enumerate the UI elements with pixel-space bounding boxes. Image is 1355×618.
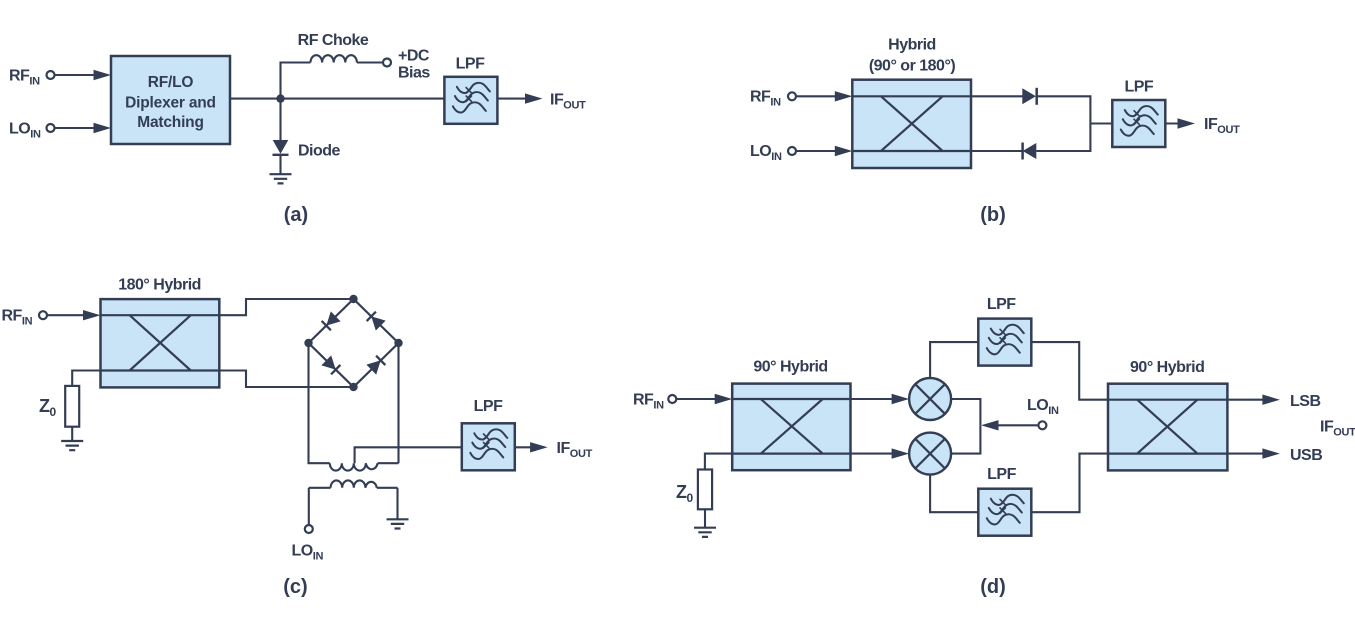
svg-text:+DC: +DC <box>398 48 430 65</box>
svg-text:RF Choke: RF Choke <box>298 32 369 49</box>
svg-text:(a): (a) <box>284 204 308 226</box>
svg-text:LSB: LSB <box>1290 393 1321 410</box>
svg-text:Diode: Diode <box>298 143 341 160</box>
svg-text:Matching: Matching <box>137 114 203 131</box>
svg-text:LPF: LPF <box>987 296 1016 313</box>
svg-text:Hybrid: Hybrid <box>888 37 936 54</box>
svg-text:(90° or 180°): (90° or 180°) <box>869 58 956 75</box>
svg-text:LPF: LPF <box>456 56 485 73</box>
svg-text:(d): (d) <box>980 576 1006 598</box>
svg-text:USB: USB <box>1290 447 1322 464</box>
svg-text:(b): (b) <box>980 204 1006 226</box>
svg-text:Bias: Bias <box>398 65 430 82</box>
svg-text:180° Hybrid: 180° Hybrid <box>118 277 201 294</box>
svg-text:LPF: LPF <box>987 466 1016 483</box>
svg-text:LPF: LPF <box>474 398 503 415</box>
svg-text:90° Hybrid: 90° Hybrid <box>753 359 827 376</box>
svg-text:(c): (c) <box>283 576 307 598</box>
svg-text:RF/LO: RF/LO <box>148 74 194 91</box>
svg-text:LPF: LPF <box>1124 79 1153 96</box>
svg-text:Diplexer and: Diplexer and <box>125 94 216 111</box>
svg-text:90° Hybrid: 90° Hybrid <box>1130 359 1204 376</box>
